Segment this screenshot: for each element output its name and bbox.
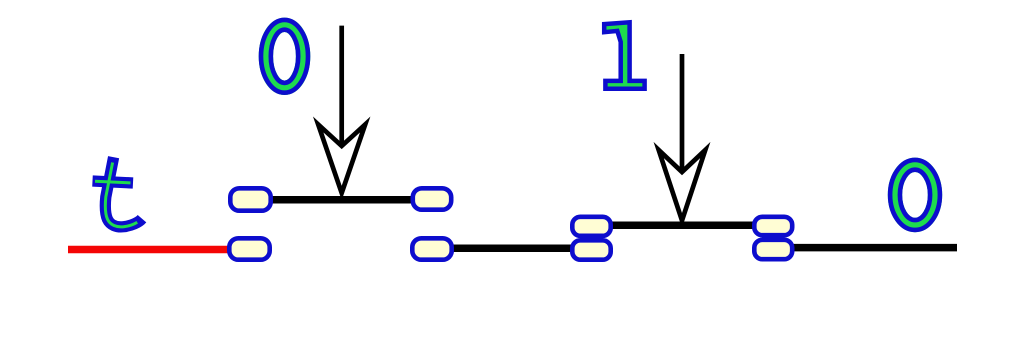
wire top segment 1 (between first pill pair tops)	[250, 196, 432, 204]
label t (left of red wire): stroked skeleton, blue under green	[93, 157, 143, 227]
arrow 2 shaft	[680, 54, 685, 172]
pill A (col1 top)	[230, 188, 270, 210]
label 0 (above arrow 1): monoline oval ring	[261, 20, 308, 93]
wire elevated segment 2 (between stacked pill pairs)	[591, 222, 773, 230]
arrow 1 shaft	[339, 26, 344, 146]
arrow 1 head (open dart)	[318, 125, 365, 194]
pill D (col2 bottom)	[412, 238, 451, 259]
wire bottom segment (middle)	[432, 244, 592, 252]
wire red segment t (left)	[68, 246, 248, 254]
label 0 (right end): monoline oval ring	[890, 160, 940, 230]
pill G (stack2 top)	[754, 217, 792, 235]
pill E (stack1 top)	[572, 217, 610, 236]
pill H (stack2 bottom)	[754, 240, 792, 259]
pill C (col2 top)	[413, 188, 451, 209]
arrow 2 head (open dart)	[659, 150, 706, 221]
pill F (stack1 bottom)	[572, 240, 610, 259]
pill B (col1 bottom, end of red wire)	[229, 238, 269, 259]
label 1 (above arrow 2): stem + flag + base bar	[604, 22, 644, 88]
wire bottom segment (right end)	[773, 244, 957, 252]
